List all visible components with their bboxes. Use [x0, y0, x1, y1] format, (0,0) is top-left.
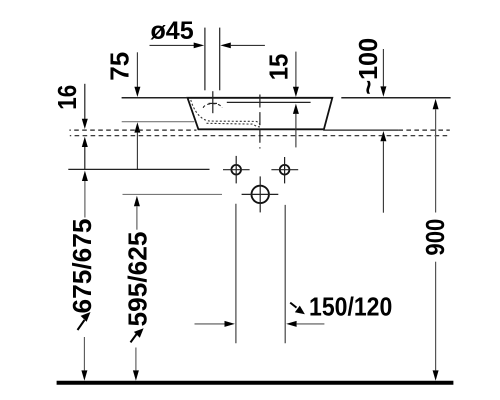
15 dimension lower arrow [293, 104, 299, 114]
svg-text:900: 900 [420, 219, 450, 256]
faucet hole center tick [209, 102, 217, 104]
675/675 dimension lower line [83, 337, 85, 370]
~100 dimension lower arrow [380, 131, 386, 141]
faucet hole left circle [231, 165, 241, 175]
floor line [57, 381, 454, 385]
hole extension vertical right [284, 205, 286, 343]
svg-text:16: 16 [54, 85, 82, 110]
15 dimension upper line [295, 52, 297, 88]
faucet hole right crosshair vertical [284, 157, 286, 183]
900 dimension upper arrow [433, 99, 439, 109]
svg-text:150/120: 150/120 [309, 291, 392, 321]
faucet holes extension line [68, 168, 209, 170]
595/625 dimension lower line [135, 348, 137, 371]
svg-text:~100: ~100 [353, 38, 383, 95]
basin inner ledge line [227, 101, 311, 103]
150/120 leader arrow [290, 303, 296, 308]
drain crosshair horizontal [242, 193, 279, 195]
hole extension vertical left [235, 204, 237, 343]
basin interior bottom extension line [122, 121, 195, 123]
drain circle [252, 186, 269, 203]
~100 dimension upper line [382, 49, 384, 86]
faucet hole dashed arc [203, 104, 222, 108]
svg-text:ø45: ø45 [151, 17, 194, 45]
console dashed line row2 [70, 135, 450, 137]
675/675 dimension upper arrow [82, 171, 88, 181]
basin interior dotted bottom second line [207, 123, 261, 127]
ø45 extension line left [204, 28, 206, 91]
faucet hole left crosshair horizontal [223, 169, 250, 171]
svg-text:675/675: 675/675 [67, 219, 97, 314]
16 dimension upper line [84, 84, 86, 119]
75 dimension lower arrow [134, 122, 140, 132]
675/675 leader arrow [78, 320, 85, 330]
basin outline [188, 98, 333, 130]
75 dimension upper line [136, 52, 138, 87]
faucet hole right crosshair horizontal [271, 169, 298, 171]
svg-text:15: 15 [266, 54, 294, 81]
ø45 extension line right [219, 28, 221, 91]
svg-text:75: 75 [106, 52, 134, 81]
ø45 dimension arrow right [231, 44, 265, 46]
595/625 dimension upper arrow [134, 196, 140, 206]
console dashed line row1 right [398, 129, 449, 131]
basin interior dotted profile left curve [191, 100, 261, 127]
drain crosshair vertical [259, 176, 261, 212]
console solid segment right [323, 129, 398, 131]
faucet hole centerline [212, 91, 214, 113]
150/120 dimension arrow left [195, 323, 226, 325]
faucet hole left crosshair vertical [235, 156, 237, 184]
svg-text:595/625: 595/625 [122, 232, 152, 327]
ø45 dimension arrow left [150, 44, 196, 46]
900 dimension lower line [435, 262, 437, 371]
rim extension line right [341, 97, 450, 99]
rim extension line left [122, 97, 188, 99]
drain centerline dashed [259, 95, 261, 149]
console dashed line row1 left [69, 129, 196, 131]
595/625 leader arrow [131, 334, 138, 343]
16 dimension lower arrow [82, 137, 88, 147]
faucet hole right circle [280, 165, 290, 175]
150/120 dimension arrow right [286, 321, 296, 327]
drain extension line [123, 193, 223, 195]
